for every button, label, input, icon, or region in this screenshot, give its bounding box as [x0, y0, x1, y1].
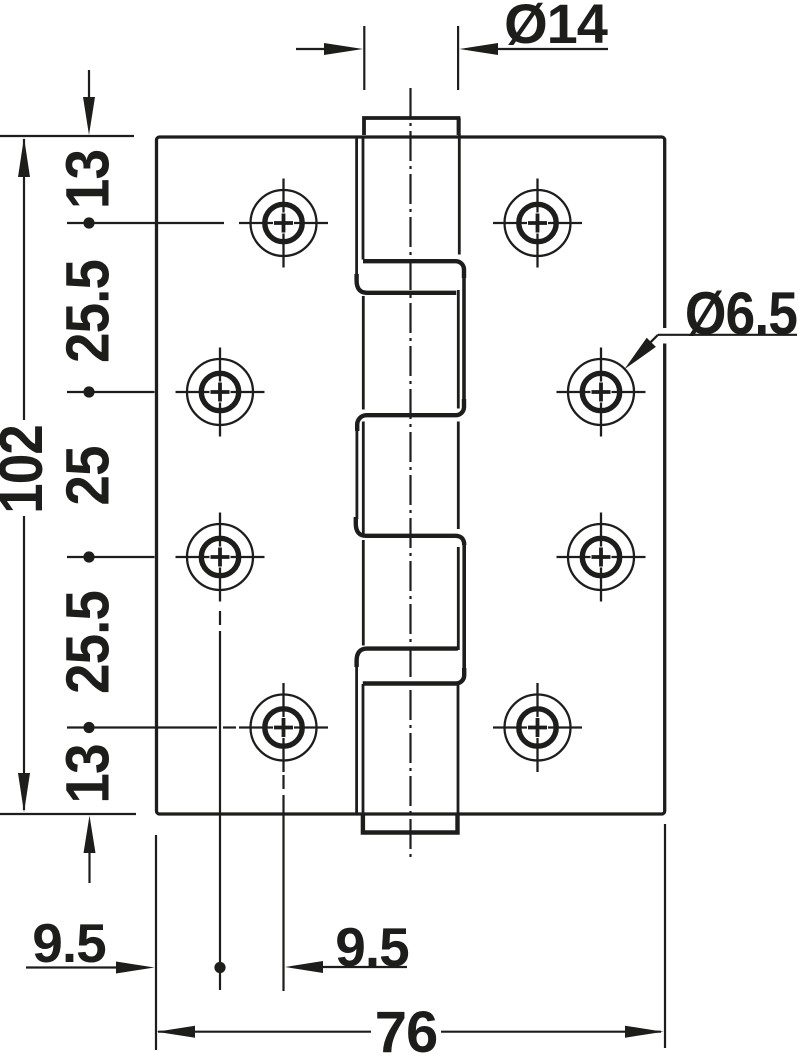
screw hole row1 left	[239, 179, 328, 268]
dimension 25.5 top label	[54, 260, 123, 363]
knuckle joint third bold line	[356, 517, 464, 545]
barrel left inner edge segments	[362, 137, 365, 813]
dimension 76 label	[375, 1000, 438, 1058]
knuckle pin cap top	[364, 118, 459, 135]
knuckle outer right wall upper	[462, 276, 466, 407]
extension line left edge bottom	[155, 835, 157, 1050]
dimension 9.5 left arrow	[26, 962, 155, 974]
screw hole row3 left	[176, 513, 265, 602]
hinge leaf plate outline	[157, 137, 665, 814]
dimension 102 line	[18, 138, 30, 813]
knuckle bottom corner bold	[363, 668, 464, 684]
dimension D6.5 label	[685, 281, 797, 348]
dimension 9.5 left label	[32, 912, 106, 974]
svg-text:9.5: 9.5	[32, 912, 106, 974]
knuckle wrap lower	[357, 649, 458, 667]
svg-text:Ø14: Ø14	[504, 0, 608, 55]
barrel left outer edge segments	[355, 137, 358, 813]
dimension 25.5 bottom label	[54, 591, 123, 694]
svg-text:13: 13	[54, 744, 123, 803]
row1 datum dot	[67, 217, 224, 228]
bottom datum dot col B	[214, 962, 225, 973]
dimension 13 top arrow	[83, 70, 95, 135]
knuckle joint top bold line	[363, 261, 464, 278]
dimension D14 arrows	[296, 43, 608, 55]
screw hole row2 left	[176, 348, 265, 437]
svg-text:Ø6.5: Ø6.5	[685, 281, 797, 348]
row2 datum dot	[67, 386, 155, 397]
svg-text:13: 13	[54, 150, 123, 209]
svg-text:9.5: 9.5	[335, 916, 409, 978]
barrel right inner edge segments	[458, 118, 459, 813]
dimension D6.5 leader	[624, 328, 797, 369]
screw hole row3 right	[557, 513, 646, 602]
extension line bottom edge left	[0, 813, 136, 815]
screw hole row4 right	[493, 683, 582, 772]
dimension 9.5 right arrow	[285, 961, 407, 973]
dimension 9.5 right label	[335, 916, 409, 978]
dimension D14 label	[504, 0, 608, 55]
svg-text:25.5: 25.5	[54, 260, 123, 363]
dimension D14 extension lines	[364, 26, 458, 90]
svg-text:25.5: 25.5	[54, 591, 123, 694]
extension line top edge left	[0, 135, 134, 137]
screw hole row4 left	[239, 683, 328, 772]
row4 datum dot	[67, 722, 236, 733]
extension line col A bottom	[282, 775, 284, 991]
dimension 13 bottom label	[54, 744, 123, 803]
knuckle joint second bold line	[357, 399, 464, 431]
dimension 25 label	[54, 446, 123, 505]
extension line right edge bottom	[664, 824, 666, 1048]
knuckle outer right wall lower	[462, 543, 466, 670]
extension line col B bottom	[219, 611, 221, 990]
row3 datum dot	[67, 551, 155, 562]
screw hole row2 right	[557, 348, 646, 437]
svg-text:76: 76	[375, 1000, 438, 1058]
svg-text:102: 102	[0, 425, 56, 514]
knuckle pin cap bottom	[363, 815, 458, 833]
dimension 13 top label	[54, 150, 123, 209]
barrel centerline	[409, 88, 411, 857]
screw hole row1 right	[493, 179, 582, 268]
dimension 76 line	[157, 1026, 664, 1038]
dimension 102 label	[0, 425, 56, 514]
svg-text:25: 25	[54, 446, 123, 505]
dimension 13 bottom arrow	[84, 816, 96, 884]
knuckle wrap upper left	[357, 274, 457, 293]
